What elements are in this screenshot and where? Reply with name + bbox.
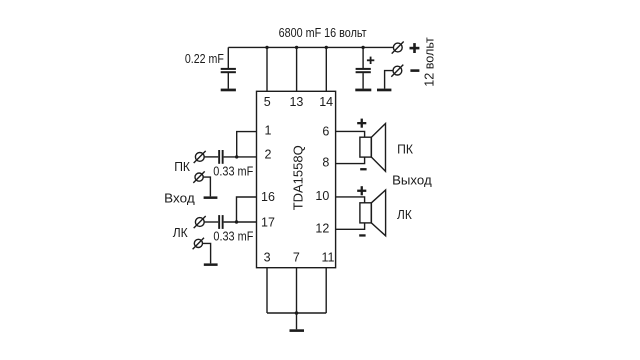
- svg-text:10: 10: [315, 189, 329, 203]
- wire pin5 to rail: [266, 47, 268, 91]
- svg-text:12: 12: [315, 221, 329, 235]
- minus sign 12V: [410, 69, 419, 72]
- svg-text:17: 17: [261, 215, 275, 229]
- svg-text:5: 5: [264, 95, 271, 109]
- terminal input LK: [195, 218, 204, 227]
- wire pin6 to speaker 1: [336, 131, 365, 137]
- svg-text:14: 14: [319, 95, 333, 109]
- svg-text:0.22 mF: 0.22 mF: [185, 52, 224, 66]
- wire pin16 branch: [237, 197, 257, 222]
- capacitor C1 0.22 mF lead top: [227, 47, 229, 68]
- terminal minus 12V: [393, 66, 402, 75]
- plus sign 12V: [410, 47, 420, 50]
- wire pin7 down: [296, 268, 298, 330]
- svg-text:ПК: ПК: [174, 160, 190, 174]
- svg-text:Выход: Выход: [392, 173, 432, 187]
- wire pin12 to speaker 2: [336, 223, 365, 229]
- wire input ground 1: [203, 177, 210, 196]
- node pin1-pin2: [235, 155, 238, 158]
- wire top supply rail: [228, 46, 393, 48]
- wire pin10 to speaker 2: [336, 197, 365, 203]
- svg-text:ПК: ПК: [397, 143, 414, 157]
- ground input 1: [204, 196, 218, 199]
- ground input 2: [204, 263, 218, 266]
- svg-text:TDA1558Q: TDA1558Q: [290, 145, 305, 210]
- wire pin11 down: [325, 268, 327, 313]
- capacitor C2 6800 mF lead top: [362, 47, 364, 68]
- node top rail C2: [361, 46, 364, 49]
- ground minus terminal: [377, 89, 391, 92]
- svg-text:16: 16: [261, 190, 275, 204]
- wire bottom ground bus: [267, 312, 326, 314]
- plus sign C2: [367, 59, 374, 61]
- terminal input ground 1: [195, 173, 203, 181]
- speaker LS2 box: [360, 203, 371, 223]
- svg-text:ЛК: ЛК: [173, 226, 189, 240]
- capacitor C3 0.33 mF plates: [218, 150, 220, 164]
- terminal input PK: [195, 153, 204, 162]
- ground pin7: [290, 329, 305, 332]
- node top rail pin13: [295, 46, 298, 49]
- plus sign speaker 1: [357, 122, 366, 124]
- op IC U1 TDA1558Q body: [257, 91, 336, 267]
- terminal input ground 2: [194, 239, 202, 247]
- wire pin13 to rail: [296, 47, 298, 91]
- wire pin14 to rail: [325, 47, 327, 91]
- svg-text:6800 mF 16 вольт: 6800 mF 16 вольт: [279, 26, 367, 40]
- svg-text:6: 6: [322, 124, 329, 138]
- node ground bus: [295, 311, 299, 315]
- wire pin1 branch: [237, 132, 257, 157]
- svg-text:ЛК: ЛК: [397, 208, 412, 222]
- wire input ground 2: [203, 243, 211, 263]
- svg-text:11: 11: [322, 251, 335, 265]
- node top rail pin5: [265, 46, 268, 49]
- wire pin3 down: [266, 268, 268, 313]
- wire minus terminal to ground: [385, 71, 394, 89]
- svg-text:2: 2: [265, 148, 272, 162]
- wire pin2 input PK: [204, 156, 218, 158]
- minus sign speaker 2: [359, 234, 365, 236]
- minus sign speaker 1: [360, 168, 366, 170]
- ground C2: [355, 89, 371, 92]
- node pin16-pin17: [235, 220, 238, 223]
- svg-text:8: 8: [322, 156, 329, 170]
- speaker LS2 horn: [371, 190, 385, 236]
- capacitor C2 6800 mF lead bottom: [362, 73, 364, 89]
- terminal plus 12V: [393, 43, 402, 52]
- wire pin8 to speaker 1: [336, 157, 365, 164]
- svg-text:7: 7: [293, 251, 300, 265]
- node top rail pin14: [325, 46, 328, 49]
- capacitor C1 0.22 mF lead bottom: [227, 73, 229, 89]
- capacitor C2 6800 mF plates: [356, 68, 371, 70]
- svg-text:0.33 mF: 0.33 mF: [213, 165, 253, 179]
- ground C1: [221, 89, 236, 92]
- svg-text:0.33 mF: 0.33 mF: [213, 230, 253, 244]
- svg-text:13: 13: [289, 95, 303, 109]
- capacitor C1 0.22 mF plates: [221, 68, 236, 70]
- svg-text:1: 1: [265, 123, 272, 137]
- wire pin17 input LK: [204, 221, 218, 223]
- svg-text:3: 3: [264, 251, 271, 265]
- svg-text:Вход: Вход: [164, 191, 195, 205]
- speaker LS1 horn: [371, 124, 385, 172]
- plus sign speaker 2: [357, 190, 366, 192]
- capacitor C4 0.33 mF plates: [218, 215, 220, 229]
- svg-text:12 вольт: 12 вольт: [423, 37, 437, 87]
- speaker LS1 box: [360, 137, 371, 157]
